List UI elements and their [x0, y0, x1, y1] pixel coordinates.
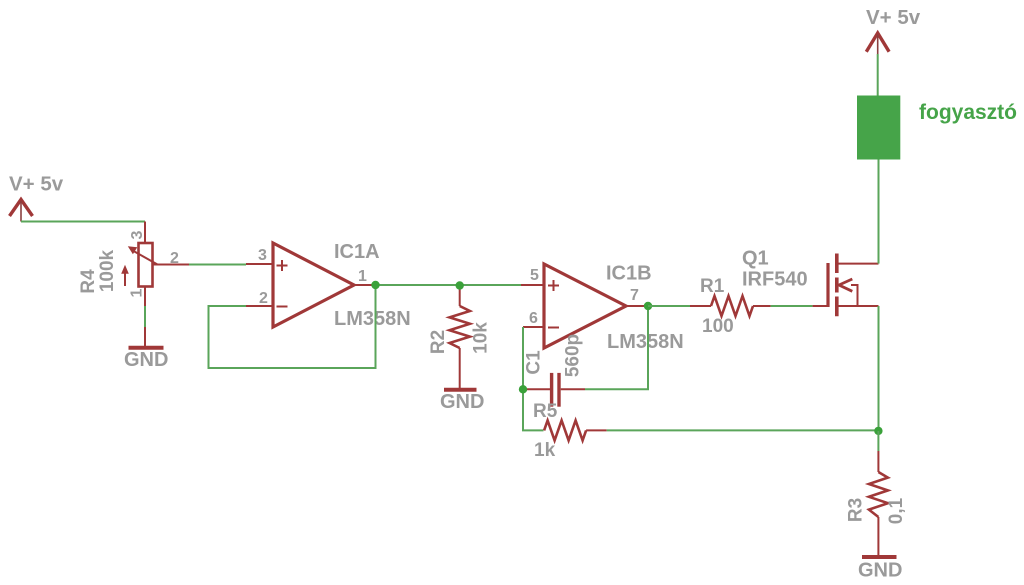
svg-text:3: 3 — [129, 230, 146, 239]
pin 5 lead — [521, 284, 544, 286]
transistor Q1 — [813, 254, 879, 317]
resistor R1 — [690, 296, 771, 316]
svg-text:100k: 100k — [97, 249, 118, 292]
resistor R5 — [544, 420, 607, 440]
pin 2 lead — [246, 305, 273, 307]
svg-text:3: 3 — [258, 247, 267, 264]
pin 7 lead — [626, 305, 648, 307]
svg-text:1k: 1k — [534, 440, 556, 461]
svg-text:0,1: 0,1 — [886, 497, 907, 524]
svg-text:IRF540: IRF540 — [742, 269, 808, 291]
svg-text:LM358N: LM358N — [334, 308, 411, 330]
wire pin6 down to C1 node — [523, 327, 544, 430]
svg-text:R3: R3 — [846, 498, 867, 522]
svg-text:5: 5 — [530, 267, 539, 284]
channel dashes — [835, 254, 839, 317]
body — [139, 243, 153, 287]
capacitor C1 — [523, 373, 585, 407]
op-amp IC1B — [521, 264, 648, 348]
svg-text:V+ 5v: V+ 5v — [9, 173, 64, 196]
svg-text:1: 1 — [129, 288, 146, 297]
supply V+ top arrow — [866, 33, 889, 54]
node source/R5/R3 — [874, 427, 882, 435]
node IC1B output — [644, 302, 652, 310]
svg-text:GND: GND — [858, 560, 902, 582]
svg-text:1: 1 — [358, 268, 367, 285]
wire R4 pin1 to GND — [144, 306, 146, 327]
wire source down to node — [878, 306, 880, 430]
svg-text:10k: 10k — [471, 322, 492, 354]
svg-text:2: 2 — [170, 250, 179, 267]
ground GND2 — [444, 388, 477, 392]
wire load to drain — [878, 160, 880, 264]
feedback wire IC1A out to pin2 — [209, 285, 376, 368]
source lead — [837, 305, 879, 307]
svg-text:C1: C1 — [524, 350, 545, 375]
node C1 left — [519, 385, 527, 393]
svg-text:R2: R2 — [428, 330, 449, 354]
pin 6 lead — [523, 326, 544, 328]
svg-text:6: 6 — [529, 310, 538, 327]
wire V+ to R4 pin3 — [21, 221, 145, 223]
svg-text:R1: R1 — [700, 276, 725, 297]
wire R4 pin2 to IC1A pin3 — [189, 264, 246, 266]
svg-text:LM358N: LM358N — [607, 331, 684, 353]
ground GND1 — [129, 327, 164, 348]
pin 2 lead — [153, 264, 189, 266]
adjust arrow — [124, 271, 126, 286]
resistor R2 — [450, 286, 470, 389]
svg-text:IC1A: IC1A — [334, 241, 380, 263]
pin 3 — [144, 222, 146, 244]
load block fogyaszto — [857, 96, 900, 160]
svg-text:7: 7 — [630, 287, 639, 304]
pin 3 lead — [246, 263, 273, 265]
svg-text:GND: GND — [440, 391, 484, 413]
wire C1 right to IC1B out — [585, 306, 648, 389]
wire V+ to load — [877, 54, 879, 96]
potentiometer R4 — [121, 222, 189, 307]
svg-text:560p: 560p — [563, 334, 584, 377]
drain lead — [837, 263, 879, 265]
svg-text:2: 2 — [259, 290, 268, 307]
svg-text:V+ 5v: V+ 5v — [866, 6, 921, 29]
svg-text:fogyasztó: fogyasztó — [919, 101, 1017, 124]
ground GND3 — [862, 555, 897, 559]
wire R5 to source node — [607, 429, 879, 431]
svg-text:GND: GND — [124, 349, 168, 371]
svg-text:IC1B: IC1B — [606, 263, 652, 285]
node R2 top — [456, 281, 464, 289]
supply V+ left arrow — [10, 200, 33, 222]
op-amp IC1A — [246, 243, 376, 327]
wire IC1A out to IC1B pin5 — [376, 284, 522, 286]
wire IC1B out to R1 — [648, 305, 690, 307]
pin 1 — [144, 287, 146, 307]
gate pin lead — [813, 305, 828, 307]
svg-text:Q1: Q1 — [742, 248, 769, 270]
svg-text:R4: R4 — [78, 269, 99, 294]
wiper diagonal — [134, 251, 158, 265]
pin 1 lead — [354, 284, 376, 286]
body diode arrow — [851, 285, 858, 306]
wire R1 to gate — [771, 305, 813, 307]
svg-text:R5: R5 — [533, 401, 558, 422]
node IC1A output — [371, 281, 379, 289]
svg-text:100: 100 — [702, 316, 734, 337]
gate bar — [826, 263, 829, 307]
resistor R3 — [869, 431, 888, 555]
